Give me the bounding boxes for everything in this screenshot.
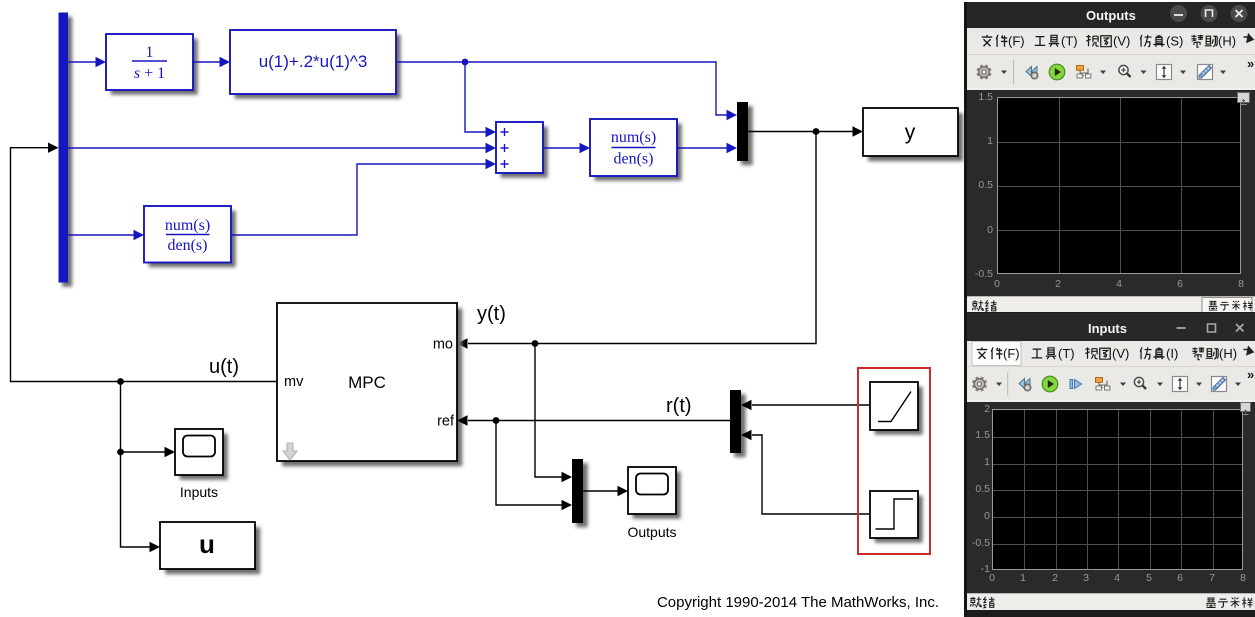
svg-text:1: 1 <box>146 44 154 61</box>
svg-text:u: u <box>199 529 215 559</box>
svg-text:MPC: MPC <box>348 373 386 392</box>
svg-text:(I): (I) <box>1166 346 1178 361</box>
node J4 <box>493 417 500 424</box>
node J1 <box>462 59 469 66</box>
svg-text:(H): (H) <box>1218 34 1236 49</box>
wire r(t) from mux M2 to MPC ref <box>468 420 730 422</box>
svg-text:(S): (S) <box>1166 34 1183 49</box>
wire J3 down to mux M3 input1 <box>535 344 563 478</box>
wire MPC mv out to demux <box>11 148 278 382</box>
wire TF3 to mux M1 <box>677 147 728 149</box>
wire demux to TF1 <box>68 61 97 63</box>
svg-text:s + 1: s + 1 <box>134 65 165 82</box>
window Outputs <box>964 2 1255 313</box>
node J6 <box>117 449 124 456</box>
step block ST1 <box>875 496 923 543</box>
svg-text:den(s): den(s) <box>168 237 208 254</box>
wire J6 to Inputs scope <box>121 451 167 453</box>
svg-text:(T): (T) <box>1061 34 1078 49</box>
mux M3 <box>576 463 588 527</box>
svg-text:(F): (F) <box>1003 346 1020 361</box>
scope block Inputs <box>180 434 228 480</box>
MPC controller block U1 <box>282 308 462 466</box>
wire M1 to block y <box>748 131 854 133</box>
wire demux row2 to sum input2 <box>68 147 487 149</box>
wire ramp to M2 input1 <box>752 404 870 406</box>
wire Fcn output to mux M1 top <box>396 62 728 115</box>
svg-text:Inputs: Inputs <box>180 484 218 500</box>
svg-text:y(t): y(t) <box>477 303 506 325</box>
wire J1 to sum input1 <box>465 62 487 132</box>
red annotation box <box>858 368 930 554</box>
transfer fcn TF1 1/(s+1) <box>111 39 198 95</box>
transfer fcn TF3 num(s)/den(s) <box>595 124 682 181</box>
svg-text:Outputs: Outputs <box>627 524 676 540</box>
svg-text:r(t): r(t) <box>666 395 692 417</box>
wire J5 down to scope and outport <box>121 382 152 548</box>
wire step to M2 input2 <box>752 435 870 514</box>
scope block Outputs <box>633 472 681 519</box>
wire M3 to Outputs scope <box>583 490 619 492</box>
transfer fcn TF2 num(s)/den(s) <box>149 211 236 268</box>
outport u <box>165 527 260 574</box>
wire TF2 to sum input3 <box>231 164 487 235</box>
node J5 <box>117 378 124 385</box>
svg-text:Copyright 1990-2014 The MathWo: Copyright 1990-2014 The MathWorks, Inc. <box>657 594 939 611</box>
outport y <box>868 113 963 161</box>
svg-text:u(1)+.2*u(1)^3: u(1)+.2*u(1)^3 <box>259 52 368 71</box>
fcn block F1 u(1)+.2*u(1)^3 <box>235 35 401 99</box>
svg-text:(H): (H) <box>1219 346 1237 361</box>
mux M1 <box>741 106 753 165</box>
svg-text:mv: mv <box>284 374 304 390</box>
MPC gray arrow icon <box>283 443 297 460</box>
mux M2 <box>734 394 746 457</box>
wire sum to TF3 <box>543 147 581 149</box>
svg-text:den(s): den(s) <box>614 151 654 168</box>
wire demux row3 to TF2 <box>68 234 135 236</box>
svg-text:y: y <box>905 121 916 144</box>
svg-text:»: » <box>1247 56 1254 71</box>
node J2 <box>813 128 820 135</box>
svg-text:»: » <box>1247 367 1254 382</box>
svg-text:(V): (V) <box>1113 34 1130 49</box>
wire TF1 to Fcn <box>193 61 221 63</box>
svg-text:num(s): num(s) <box>611 129 656 146</box>
sum block S1 <box>501 127 548 178</box>
window Inputs <box>964 313 1255 617</box>
node J3 <box>532 340 539 347</box>
wire y(t) feedback J2 to MPC mo <box>468 132 816 344</box>
svg-text:(V): (V) <box>1112 346 1129 361</box>
svg-text:ref: ref <box>437 414 455 430</box>
svg-text:mo: mo <box>433 337 453 353</box>
svg-text:u(t): u(t) <box>209 356 239 378</box>
svg-text:(F): (F) <box>1008 34 1025 49</box>
svg-text:num(s): num(s) <box>165 217 210 234</box>
wire J4 down to mux M3 input2 <box>496 421 563 506</box>
ramp block R1 <box>875 387 923 435</box>
demux D1 (blue bar) <box>62 17 72 287</box>
svg-text:(T): (T) <box>1058 346 1075 361</box>
